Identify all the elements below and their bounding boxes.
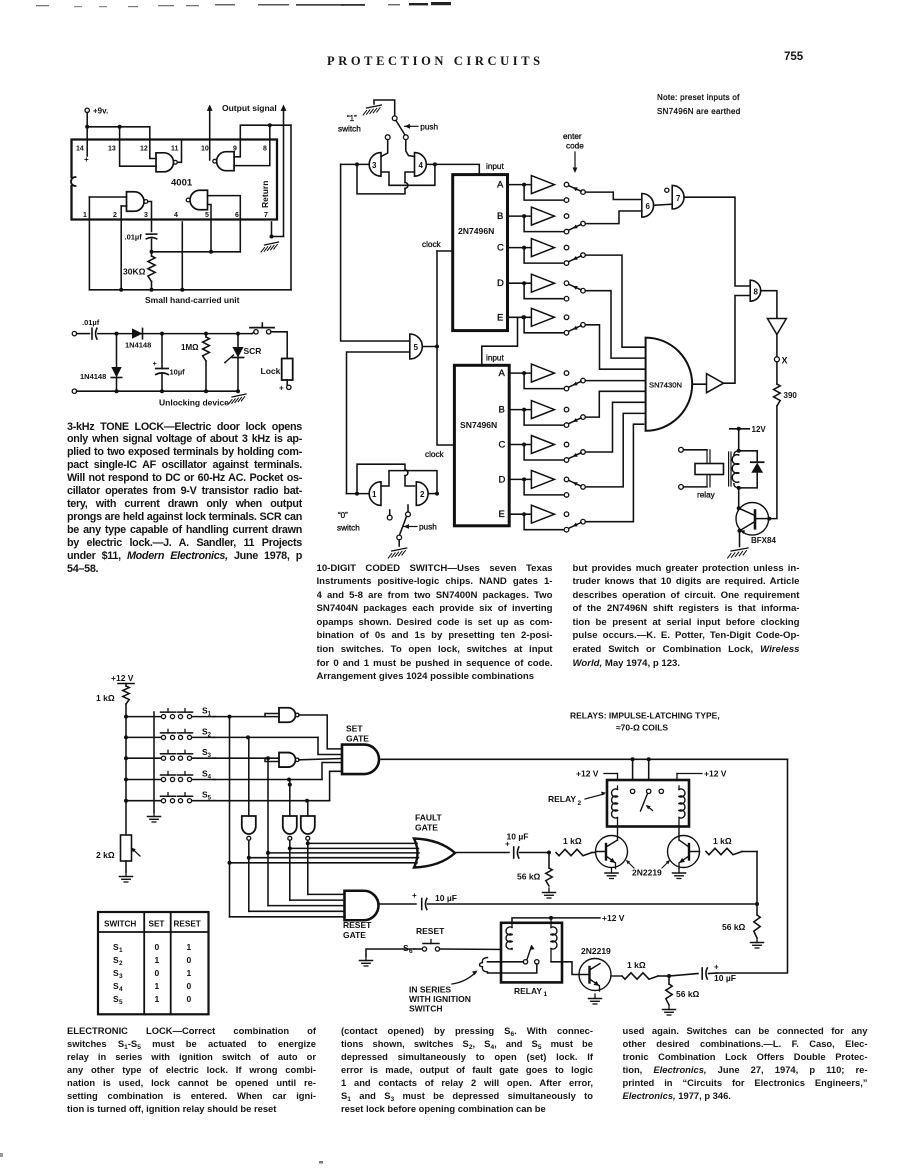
NOR gate U1a (pins 1,2 to 3)	[127, 192, 145, 212]
text: 10-DIGIT CODED SWITCH description col 1	[317, 562, 553, 684]
svg-text:2N2219: 2N2219	[632, 868, 662, 878]
RELAY1 box	[501, 923, 562, 998]
register letters	[497, 180, 506, 521]
svg-text:GATE: GATE	[343, 930, 366, 940]
+12 V labels at relay2	[576, 769, 727, 781]
relay1 left coil	[506, 923, 512, 950]
resistor R2 1M	[181, 334, 209, 392]
code switch row B2	[524, 410, 585, 428]
inverter buffer row D1	[508, 274, 569, 292]
svg-text:1: 1	[544, 991, 548, 998]
svg-text:S3: S3	[202, 747, 212, 759]
bottom wire of unlocking device	[72, 389, 240, 393]
svg-text:1 kΩ: 1 kΩ	[713, 836, 732, 846]
ignition series wires and brace	[480, 958, 537, 974]
ground of 0 switch	[392, 548, 407, 551]
resistor 1k (supply)	[96, 684, 129, 705]
svg-text:0: 0	[187, 955, 192, 965]
svg-text:10 µF: 10 µF	[714, 973, 736, 983]
reset gate input bundle	[230, 894, 345, 916]
svg-text:1: 1	[187, 942, 192, 952]
+12 V supply label (top left)	[111, 673, 134, 684]
left supply rail	[124, 704, 128, 835]
svg-text:5: 5	[119, 999, 123, 1006]
svg-text:1: 1	[187, 968, 192, 978]
svg-text:RELAY: RELAY	[514, 986, 542, 996]
NOR gate U1b (pins 12,13 to 11)	[156, 153, 174, 172]
node X	[774, 335, 787, 385]
text: 3-kHz TONE LOCK description	[67, 421, 302, 576]
wire row C1 pole to 7430 input 1	[585, 255, 645, 347]
svg-text:GATE: GATE	[415, 823, 438, 833]
svg-text:S2: S2	[202, 726, 212, 738]
NAND gate 1	[369, 482, 381, 506]
code switch row C1	[524, 248, 585, 266]
transistor Q2 BFX84	[736, 488, 776, 547]
bottom rail wire	[89, 288, 291, 292]
svg-text:SWITCH: SWITCH	[409, 1004, 443, 1014]
NOR gate U1d (pins 5,6 to 4) mirrored	[190, 190, 208, 210]
wire row E1 pole to 7430 input 3	[585, 325, 645, 369]
cascade wire register1 E to register2 input	[482, 317, 518, 365]
inverter buffer row A1	[508, 176, 569, 194]
unlocking device: input terminal top	[72, 331, 76, 335]
top wire of unlocking device	[98, 332, 252, 336]
relay2 left coil	[612, 786, 618, 826]
svg-text:RESET: RESET	[174, 920, 201, 929]
svg-text:RELAYS: IMPULSE-LATCHING TYPE: RELAYS: IMPULSE-LATCHING TYPE,	[570, 711, 720, 721]
wire 7430 inverter output up to gate8 lower input	[724, 296, 751, 384]
clock labels	[422, 240, 445, 459]
NAND gate 5	[410, 334, 422, 359]
svg-text:2 kΩ: 2 kΩ	[96, 850, 115, 860]
svg-text:FAULT: FAULT	[415, 813, 443, 823]
SET output wire to relay2 and right rail	[381, 757, 788, 789]
output signal arrow right	[281, 105, 287, 237]
capacitor C3 10uf	[153, 334, 186, 392]
drop wire S5 column	[307, 801, 309, 816]
Return line from pin 7 to earth	[270, 222, 284, 239]
wire gate D lower input to pin 5 node	[208, 205, 212, 252]
resistor 1k (bottom)	[622, 960, 671, 979]
svg-text:2: 2	[119, 960, 123, 967]
svg-text:2N2219: 2N2219	[581, 946, 611, 956]
wire row A2 pole to 7430 input 4	[585, 380, 645, 382]
cross-coupling wires of latch 0	[357, 464, 437, 493]
svg-text:0: 0	[155, 942, 160, 952]
inverter buffer row C1	[508, 239, 569, 257]
"0" switch label	[337, 511, 360, 533]
ground symbol (return earth)	[265, 242, 279, 245]
note text	[657, 93, 741, 116]
code switch row B1	[524, 216, 585, 234]
small NAND N2 (S3)	[279, 753, 296, 768]
scan artifact dashes along top edge	[0, 0, 904, 16]
svg-text:0: 0	[187, 994, 192, 1004]
wire N2 output to set gate	[299, 759, 342, 760]
svg-text:1 kΩ: 1 kΩ	[627, 960, 646, 970]
svg-text:RESET: RESET	[416, 926, 445, 936]
wire gate6 output to gate7	[654, 204, 673, 205]
transistor Q5 2N2219 (bottom)	[551, 946, 622, 1004]
code switch row D1	[524, 283, 585, 301]
shift register U3 SN7496N	[454, 365, 509, 526]
IC U4 SN7430N 8-input NAND	[646, 338, 693, 431]
inverter buffer row E1	[508, 308, 569, 326]
svg-text:+12 V: +12 V	[111, 673, 134, 683]
code switch row E2	[524, 514, 585, 532]
wire row E2 pole to 7430 input 8	[585, 424, 643, 522]
svg-text:1: 1	[119, 947, 123, 954]
wire row B1 pole to gate6 lower input	[585, 211, 642, 224]
resistor 56k (fault)	[517, 853, 556, 899]
wires switch contacts into latch	[381, 140, 415, 157]
enter code label with arrow	[563, 132, 584, 173]
resistor 1k (left Q base)	[556, 836, 596, 856]
gate2 output stub	[429, 492, 439, 496]
small NAND N1 (S1)	[279, 708, 299, 723]
push switch of unlocking device	[250, 323, 287, 359]
transistor Q3 2N2219 (left)	[596, 826, 628, 878]
inverter N5 (S5 col)	[301, 816, 315, 894]
diode D2 1N4148 (shunt, vertical)	[80, 334, 122, 392]
relay1 right coil	[551, 918, 557, 962]
wire S3 row to inverting NAND N2	[213, 756, 279, 761]
svg-text:SWITCH: SWITCH	[104, 920, 136, 929]
svg-text:S5: S5	[202, 790, 212, 802]
clock bus from gate 5 output	[422, 251, 454, 445]
svg-text:+12 V: +12 V	[602, 913, 625, 923]
svg-text:SET: SET	[149, 920, 165, 929]
switch S2	[126, 726, 215, 739]
svg-text:S1: S1	[202, 706, 212, 718]
2k potentiometer	[96, 835, 140, 882]
svg-text:IN SERIES: IN SERIES	[409, 985, 451, 995]
relay2 right coil	[679, 786, 685, 826]
ground of unlocking device	[232, 394, 246, 397]
wire gate B output to pin 11	[178, 140, 182, 163]
right outer vertical wire	[290, 125, 292, 290]
supply rail wire to gates	[85, 125, 156, 159]
svg-text:1 kΩ: 1 kΩ	[96, 693, 115, 703]
capacitor 10uF (bottom)	[669, 963, 736, 984]
NAND gate 3	[369, 153, 381, 177]
wire N1 output to set gate	[299, 715, 342, 749]
wire R1 to bottom rail	[150, 282, 154, 292]
svg-text:+12 V: +12 V	[704, 769, 727, 779]
wire S2 row to set gate	[213, 735, 342, 754]
long reset wire to right	[428, 903, 758, 905]
+9v supply terminal	[85, 107, 108, 116]
fault gate input bundle	[230, 843, 420, 862]
bottom scan marks	[0, 1153, 904, 1173]
switch S3	[126, 747, 215, 760]
inverter after 7430	[692, 374, 723, 393]
inverter buffer row B1	[508, 207, 569, 225]
transistor Q4 2N2219 (right)	[668, 826, 700, 878]
pin numbers top row 14 13 12 11 10 9 8	[76, 146, 267, 153]
inverter N4 (S4 col)	[283, 816, 297, 900]
wire pin 8 branch to gate C lower input	[234, 125, 270, 165]
12V supply	[730, 425, 767, 451]
push switch of 0 latch	[387, 505, 410, 546]
+12V wire at relay1	[512, 913, 625, 923]
wire ground to switch contact	[374, 100, 395, 116]
FAULT GATE	[414, 813, 455, 868]
wire pin1 vertical to bottom rail	[89, 197, 126, 290]
RESET GATE	[343, 891, 379, 940]
cross-coupling wires of latch 1	[357, 163, 435, 194]
NAND gate 4	[415, 153, 427, 177]
inverter buffer row A2	[509, 364, 569, 382]
resistor 1k (right Q base)	[706, 836, 757, 855]
wire row D2 pole to 7430 input 7	[585, 413, 645, 487]
gate3 output wire to left bus	[341, 162, 370, 166]
gate1 output wire to left bus	[347, 492, 370, 496]
svg-text:RELAY: RELAY	[548, 794, 576, 804]
wire gate A output down to timing cap	[148, 202, 152, 232]
2N2219 label with pointers	[626, 860, 670, 878]
truth table	[98, 912, 209, 1014]
pin numbers bottom row 1-7	[83, 212, 268, 219]
wire pin2 vertical to bottom rail	[119, 206, 126, 292]
push label with arrow	[405, 122, 439, 131]
reset gate output wire	[379, 903, 417, 905]
code switch row D2	[524, 479, 585, 497]
code switch row A1	[524, 185, 585, 203]
wire right base resistor down to reset line	[755, 852, 759, 907]
svg-text:+: +	[714, 963, 719, 972]
capacitor 10uF (fault)	[505, 832, 551, 859]
wire row A1 pole to gate6 upper input	[585, 192, 642, 199]
relay coil (latching)	[729, 449, 741, 488]
RELAYS note	[570, 711, 720, 733]
NOR gate U1c (pins 8,9 to 10) mirrored	[217, 152, 234, 171]
wire 390 down to transistor base	[769, 406, 777, 519]
wire gate C upper input loop to top rail	[234, 123, 291, 157]
wire gate7 output down to gate8	[684, 197, 750, 286]
svg-text:RESET: RESET	[343, 920, 372, 930]
capacitor C1 .01uf	[125, 233, 157, 242]
svg-text:56 kΩ: 56 kΩ	[722, 922, 746, 932]
switch S1	[126, 706, 215, 719]
left bus from gate3 to gate 5 upper input	[341, 164, 410, 341]
shift register U2 2N7496N	[453, 175, 508, 331]
relay armature contacts	[679, 447, 724, 499]
svg-text:56 kΩ: 56 kΩ	[517, 872, 541, 882]
wire pin 4 drop to bottom rail	[181, 222, 183, 290]
"1" switch label	[338, 114, 361, 134]
resistor 390	[774, 384, 798, 406]
drop wire S2 column	[248, 737, 250, 816]
wire S4 row to set gate	[213, 763, 342, 782]
page header: PROTECTION CIRCUITS	[327, 54, 544, 69]
SCR Q1	[225, 334, 261, 392]
inverter N3 (S2 col)	[242, 816, 256, 911]
right rail down	[717, 759, 788, 973]
ground below BFX84	[731, 548, 748, 551]
ground at S6	[360, 949, 415, 966]
svg-text:S4: S4	[202, 769, 212, 781]
svg-text:0: 0	[187, 981, 192, 991]
svg-text:10 µF: 10 µF	[435, 893, 457, 903]
svg-text:1: 1	[155, 955, 160, 965]
switch S6	[403, 940, 512, 956]
drop wire S3 column	[266, 758, 270, 905]
NAND gate 6	[642, 194, 654, 218]
svg-text:GATE: GATE	[346, 734, 369, 744]
push label with arrow (0 latch)	[404, 523, 438, 532]
wire S5 row to set gate	[213, 771, 342, 802]
node below C1	[150, 239, 154, 256]
wire row B2 pole to 7430 input 5	[585, 391, 645, 417]
wire gate8 output to down-inverter	[761, 291, 777, 318]
svg-text:0: 0	[155, 968, 160, 978]
gate4 output wire to register input	[426, 162, 479, 174]
wire row D1 pole to 7430 input 2	[585, 291, 645, 358]
wire C1 node to pin 5	[152, 250, 241, 254]
RELAY2 box	[548, 780, 689, 827]
svg-text:2: 2	[578, 800, 582, 807]
drop wire S1 column	[228, 717, 232, 917]
svg-text:3: 3	[119, 973, 123, 980]
push switch of 1 latch	[385, 116, 408, 140]
inverter buffer row E2	[509, 505, 569, 523]
svg-text:+12 V: +12 V	[576, 769, 599, 779]
inverter buffer row C2	[509, 436, 569, 454]
capacitor C2 .01uf	[77, 318, 100, 339]
SET GATE	[342, 724, 379, 775]
left bus from gate1 to gate 5 lower input	[347, 352, 410, 494]
svg-text:1: 1	[155, 994, 160, 1004]
IN SERIES WITH IGNITION SWITCH label	[409, 971, 478, 1014]
wire fault gate output	[455, 852, 509, 854]
relay2 contacts	[630, 789, 663, 811]
text: ELECTRONIC LOCK description col 3	[623, 1024, 868, 1102]
wire rail branch to gate B lower input	[120, 127, 156, 166]
resistor 56k (right)	[722, 904, 764, 948]
NAND gate 2	[416, 482, 428, 506]
wire gate D upper input to C1 node	[208, 196, 241, 252]
inverter buffer row B2	[509, 401, 569, 419]
diode D1 1N4148 (series)	[125, 328, 151, 349]
NAND gate 8	[750, 280, 761, 301]
drop wire S4 column	[288, 780, 292, 817]
text: ELECTRONIC LOCK description col 2	[341, 1024, 593, 1115]
output signal arrow left	[207, 105, 213, 161]
switch S5	[126, 790, 215, 803]
svg-text:+: +	[412, 891, 417, 900]
flyback diode D3	[737, 451, 764, 490]
svg-text:10 µF: 10 µF	[507, 832, 529, 842]
wire S1 row to inverting NAND N1	[213, 714, 279, 719]
resistor 56k (bottom)	[663, 976, 700, 1015]
svg-text:56 kΩ: 56 kΩ	[676, 989, 700, 999]
svg-text:WITH IGNITION: WITH IGNITION	[409, 994, 471, 1004]
resistor R1 30K	[123, 256, 155, 282]
capacitor 10uF (reset)	[412, 891, 457, 910]
svg-text:1 kΩ: 1 kΩ	[563, 836, 582, 846]
switch common ground line	[148, 712, 161, 822]
wire row C2 pole to 7430 input 6	[585, 402, 645, 452]
NAND gate 7 with input bubble	[665, 185, 684, 209]
svg-text:4: 4	[119, 986, 123, 993]
code switch row A2	[524, 373, 585, 391]
switch S4	[126, 769, 215, 782]
Lock (solenoid)	[261, 359, 293, 393]
inverter buffer row D2	[509, 470, 569, 488]
wire +9v down to pin 14	[84, 113, 89, 165]
text: ELECTRONIC LOCK description col 1	[67, 1024, 316, 1115]
page number 755	[784, 51, 803, 63]
svg-text:≈70-Ω COILS: ≈70-Ω COILS	[616, 723, 668, 733]
relay1 contacts	[523, 945, 539, 964]
ground of 1 switch	[367, 105, 382, 108]
svg-text:1: 1	[155, 981, 160, 991]
IC U1 4001 package outline	[71, 140, 277, 220]
code switch row C2	[524, 445, 585, 463]
code switch row E1	[524, 317, 585, 335]
inverter pointing down	[767, 319, 786, 335]
text: 10-DIGIT CODED SWITCH description col 2	[573, 562, 800, 671]
svg-text:SET: SET	[346, 724, 363, 734]
